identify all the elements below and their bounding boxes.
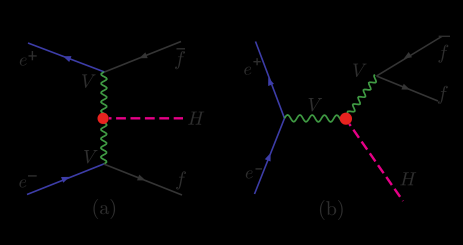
arrow on e+ line (a): [63, 56, 72, 62]
label f (a): [176, 171, 186, 189]
arrow on e+ line (b): [268, 77, 274, 86]
boson V outgoing: diagonal wavy line (b): [346, 75, 376, 119]
label f (b): [438, 86, 448, 104]
label fbar (b): [438, 45, 448, 63]
boson V propagator: horizontal wavy line (b): [285, 115, 346, 122]
wire: diagram (b) outgoing fbar line: [377, 37, 442, 77]
caption (b): [320, 200, 343, 220]
label e- (b): [246, 170, 253, 178]
arrow on fbar line (b): [404, 52, 412, 59]
label H (a): [188, 112, 204, 125]
boson V propagator: vertical wavy line (a): [101, 72, 107, 164]
arrow on f line (a): [137, 175, 146, 181]
arrow on e- line (b): [265, 153, 271, 162]
node: VVH vertex red dot (a): [98, 113, 109, 124]
node: VVH vertex red dot (b): [340, 113, 352, 125]
wire: diagram (a) outgoing f line: [104, 164, 182, 195]
arrow on f line (b): [401, 84, 410, 90]
label e+ (b): [244, 67, 251, 75]
arrow on fbar line (a): [139, 52, 148, 58]
label fbar (a): [175, 51, 185, 69]
Higgs dashed line (a): [109, 117, 183, 119]
wire: diagram (a) outgoing fbar line: [105, 42, 182, 73]
label e+ (a): [20, 57, 27, 65]
Higgs dashed line (b): [349, 124, 403, 201]
wire: diagram (a) incoming e+ line: [28, 43, 105, 72]
label V upper (a): [82, 74, 96, 87]
arrow on e- line (a): [61, 177, 70, 183]
label V lower (a): [84, 150, 98, 163]
label V outgoing (b): [353, 64, 367, 77]
wire: diagram (a) incoming e- line: [27, 164, 104, 195]
label V propagator (b): [309, 98, 323, 111]
label e- (a): [19, 179, 26, 187]
wire: diagram (b) incoming e+ line: [256, 42, 285, 119]
label H (b): [400, 172, 416, 185]
wire: diagram (b) incoming e- line: [255, 118, 285, 194]
wire: diagram (b) outgoing f line: [377, 76, 439, 101]
caption (a): [93, 199, 115, 219]
